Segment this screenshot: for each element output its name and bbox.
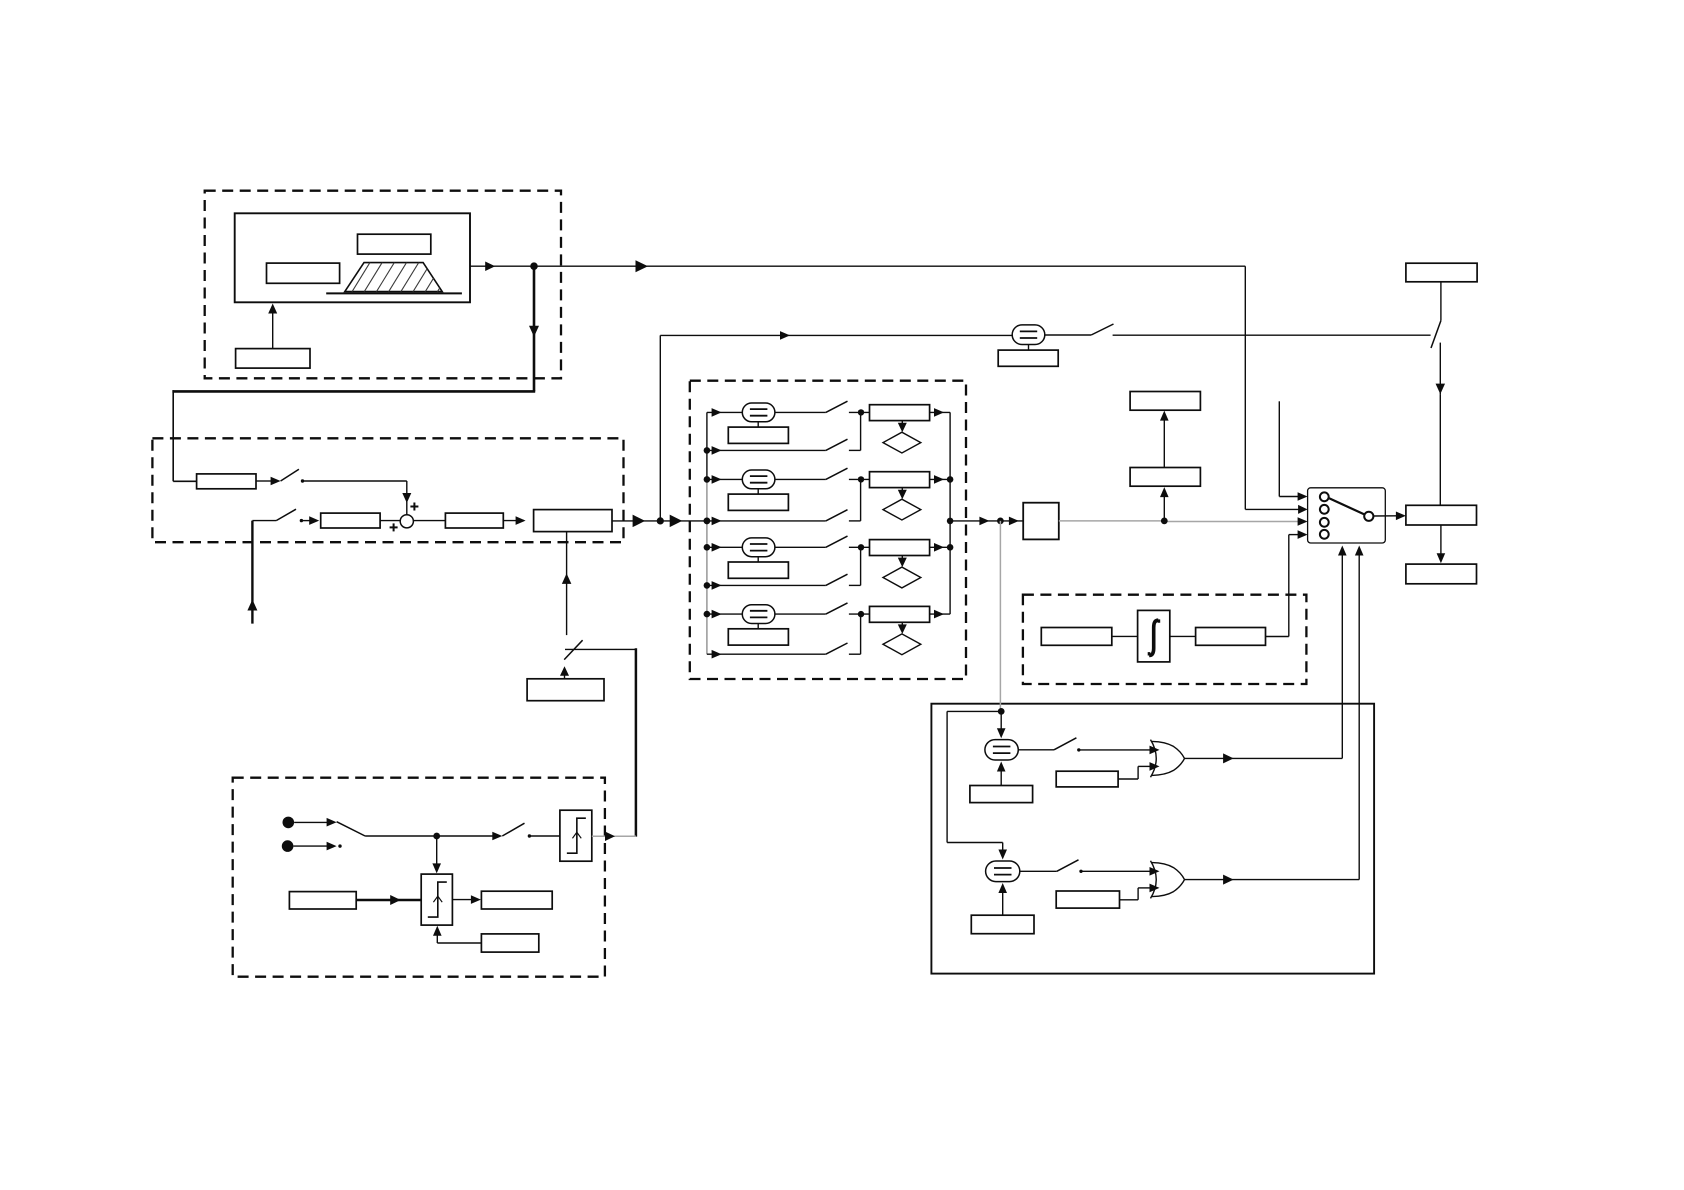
row 3: lower switch stub and riser to latch input <box>849 584 861 586</box>
manual switch SW2 blade <box>276 509 296 520</box>
constant block feeding SW4 <box>527 679 604 701</box>
dashed subsystem boundary: command conditioning group <box>152 438 623 542</box>
wire: SW2 to transfer block TB1 <box>301 520 312 522</box>
wire: MPS1 output to plant block <box>1373 515 1397 517</box>
row 2: constant block under CMP2 <box>728 494 788 510</box>
wire: branch up from main line to bypass path <box>659 335 661 521</box>
switch SW6 blade <box>502 823 524 836</box>
wire: G1 output to manual switch SW1 <box>256 480 272 482</box>
OR gate 2 <box>1152 863 1185 897</box>
manual switch SW3 blade <box>1091 324 1113 335</box>
integrator block INT1 <box>1138 610 1170 662</box>
row 4: stem to constant <box>757 624 759 629</box>
row 1: arrow down to diamond <box>901 421 903 428</box>
row 2: lower wire from bus <box>707 520 734 522</box>
wire: lower selector output up into RL1 <box>566 532 568 636</box>
row 3: lower wire from bus <box>707 584 734 586</box>
wire: constant up into signal builder <box>272 308 274 349</box>
row 4: wire latch to right bus <box>930 613 951 615</box>
row 1: latch block <box>870 405 930 421</box>
wire: junction down into relay block <box>436 836 438 869</box>
hatched trapezoid waveform <box>345 260 469 295</box>
dashed subsystem boundary: comparator bank group <box>690 381 966 679</box>
wire: threshold into RLY1 bottom <box>437 942 481 944</box>
wire: constant to OR1 input b <box>1118 778 1138 780</box>
row 4: diamond indicator <box>883 634 921 655</box>
row 4: upper switch blade <box>826 603 848 614</box>
rate limiter block RL1 <box>534 510 612 532</box>
row 4: arrow down to diamond <box>901 622 903 629</box>
wire: SC2 up into SC1 <box>1163 415 1165 468</box>
node: left bus junction dots <box>704 447 711 454</box>
wire: SW3 to right toward selector switch <box>1113 334 1431 336</box>
MPS1 selector blade <box>1329 498 1365 514</box>
wire: gray drop from main line into logic box <box>999 521 1001 712</box>
row 1: comparator CMP1 (stadium) <box>742 403 775 422</box>
gain block IG1 <box>1041 628 1112 646</box>
row 3: stem to constant <box>757 557 759 562</box>
constant block for OR2 input b <box>1056 891 1119 908</box>
node: junction to relay branch <box>433 833 440 840</box>
row 2: comparator CMP2 (stadium) <box>742 470 775 489</box>
wire: thick feedback from junction down and left <box>533 266 536 391</box>
wire: CMP0 to manual switch SW3 <box>1045 334 1091 336</box>
manual switch SW1 blade <box>281 469 299 481</box>
row 1: wire latch to right bus <box>930 411 951 413</box>
multiport switch MPS1 body <box>1308 488 1386 543</box>
comparator CMPA (stadium) <box>985 740 1018 760</box>
node: junction at top of logic box <box>998 708 1005 715</box>
scope block SC2 (lower) <box>1130 468 1200 487</box>
row 2: upper switch blade <box>826 468 848 479</box>
row 2: diamond indicator <box>883 499 921 520</box>
constant block feeding RLY1 (left) <box>289 892 356 909</box>
wire: SAT1 output to feedback riser (gray) <box>592 835 636 837</box>
wire: RLY1 output to result box <box>452 899 473 901</box>
wire: junction down into comparator CMPA <box>1000 711 1002 733</box>
row 4: lower switch blade <box>826 643 848 654</box>
constant block for OR1 input b <box>1056 771 1118 787</box>
wire: left branch to second comparator <box>947 710 1001 712</box>
wire: thick feedback riser from relay output <box>635 648 638 836</box>
constant block under CMPB <box>971 915 1034 934</box>
unit delay block Z1 (square) <box>1023 503 1059 540</box>
constant block TR1 (top right) <box>1406 263 1477 282</box>
node: junction under scope column <box>1161 518 1168 525</box>
wire: SW8 to OR gate 1 input a <box>1079 749 1151 751</box>
summing junction S1 <box>400 515 413 528</box>
wire: CMPB to switch SW9 <box>1020 870 1057 872</box>
constant block under CMP0 <box>998 350 1058 366</box>
wire: IG2 up to selector input 4 <box>1266 636 1289 638</box>
row 3: wire latch to right bus <box>930 546 951 548</box>
wire: OR2 output to riser and up to MPS1 pin c <box>1185 879 1360 881</box>
row 1: stem to constant <box>757 422 759 427</box>
row 4: wire switch to latch block <box>849 613 870 615</box>
switch SW8 blade <box>1054 738 1076 750</box>
row 3: lower switch blade <box>826 574 848 585</box>
row 2: wire CMP2 to switch <box>775 478 826 480</box>
MPS1 input port circles <box>1320 492 1329 501</box>
signal builder inner label box (top) <box>358 234 431 254</box>
wire: OR1 output to riser and up to MPS1 pin b <box>1185 757 1343 759</box>
wire: bank output to unit-delay square <box>950 520 1023 522</box>
row 2: arrow down to diamond <box>901 488 903 495</box>
right bus vertical <box>949 412 951 614</box>
wire: SW1 to summing junction (over and down) <box>303 480 407 482</box>
wire: constant to OR2 input b <box>1120 899 1139 901</box>
row 1: wire CMP1 to switch <box>775 411 826 413</box>
wire: constant up into SW4 <box>564 671 566 679</box>
row 4: lower wire from bus <box>707 653 734 655</box>
row 1: lower wire from bus <box>707 449 734 451</box>
row 2: lower switch stub and riser to latch input <box>849 520 861 522</box>
plus sign (upper input of sum) <box>410 506 418 508</box>
wire: CMP0 stem to constant <box>1028 345 1030 351</box>
source constant block feeding signal builder <box>236 349 310 369</box>
row 3: comparator CMP3 (stadium) <box>742 538 775 557</box>
signal builder block U1 (outer frame) <box>235 213 470 302</box>
row 3: constant block under CMP3 <box>728 562 788 578</box>
wire: constant up into CMPA <box>1000 766 1002 786</box>
row 3: diamond indicator <box>883 567 921 588</box>
wire: IN2 open contact <box>293 845 328 847</box>
plant block PL1 <box>1406 505 1477 525</box>
wire: sum to transfer block TB2 <box>413 520 445 522</box>
transfer block TB1 <box>321 513 380 528</box>
row 3: latch block <box>870 540 930 556</box>
node: output junction dot <box>530 262 538 270</box>
wire: SW5 to SW6 <box>365 835 437 837</box>
row 2: lower switch blade <box>826 510 848 521</box>
signal builder inner label box (left) <box>267 263 340 283</box>
saturation block SAT1 <box>560 810 592 861</box>
wire: PL1 down to output block <box>1440 525 1442 559</box>
node: junction feeding logic box below (gray drop) <box>997 518 1004 525</box>
row 1: lower switch blade <box>826 439 848 450</box>
input stub arrow from below into SW2 <box>251 521 253 624</box>
wire: integrator to gain IG2 <box>1170 635 1196 637</box>
dashed subsystem boundary: manual command group <box>233 778 605 977</box>
row 1: lower switch stub and riser to latch input <box>849 449 861 451</box>
result box right of RLY1 <box>481 891 552 909</box>
OR gate 1 <box>1152 741 1185 775</box>
signal builder axis baseline <box>326 292 462 294</box>
gain block IG2 <box>1196 628 1266 646</box>
row 2: wire switch to latch block <box>849 478 870 480</box>
row 1: constant block under CMP1 <box>728 427 788 443</box>
solid subsystem boundary: alarm logic box <box>931 704 1374 974</box>
row 4: lower switch stub and riser to latch input <box>849 653 861 655</box>
wire: junction up into scope block SC2 <box>1163 492 1165 521</box>
node: right bus junction dots <box>947 476 954 483</box>
wire: TB1 to summing junction <box>380 520 401 522</box>
node: junction on main line <box>657 517 664 524</box>
dashed subsystem boundary: reference signal generator group <box>205 191 561 379</box>
manual switch SW7 blade <box>1431 321 1441 348</box>
output block OUT1 <box>1406 564 1477 584</box>
row 4: wire bus to comparator <box>707 613 743 615</box>
bypass comparator CMP0 (stadium with equal bars) <box>1012 325 1045 345</box>
wire: signal builder output to junction <box>470 265 534 267</box>
row 2: wire bus to comparator <box>707 478 743 480</box>
row 2: stem to constant <box>757 489 759 494</box>
switch SW5 blade <box>337 822 366 836</box>
row 2: latch block <box>870 472 930 488</box>
row 4: latch block <box>870 606 930 622</box>
plus sign (left input of sum) <box>390 526 398 528</box>
wire: hanging stub into selector input 1 <box>1278 401 1280 496</box>
wire: Z1 output east (gray) to selector input 3 <box>1059 520 1165 522</box>
wire: RL1 output main line with double arrowheads <box>612 520 660 522</box>
wire: TR1 down to manual switch SW7 <box>1440 282 1442 321</box>
row 3: wire CMP3 to switch <box>775 546 826 548</box>
row 4: comparator CMP4 (stadium) <box>742 605 775 624</box>
dashed subsystem boundary: integrator chain group <box>1023 595 1307 684</box>
row 3: arrow down to diamond <box>901 556 903 563</box>
wire: TB2 to rate limiter RL1 <box>503 520 524 522</box>
left bus vertical (gray lower segment) <box>706 478 708 654</box>
row 3: upper switch blade <box>826 536 848 547</box>
row 4: wire CMP4 to switch <box>775 613 826 615</box>
wire: SW7 output down into PL1 (with mid arrowhead) <box>1439 343 1441 395</box>
wire: top horizontal run to selector input 2 <box>534 265 1245 267</box>
row 3: wire switch to latch block <box>849 546 870 548</box>
row 1: wire switch to latch block <box>849 411 870 413</box>
wire: into manual switch SW2 <box>252 520 276 522</box>
wire: IG1 to integrator <box>1112 635 1138 637</box>
constant block under CMPA <box>970 786 1033 803</box>
wire: down into control dashed box <box>172 390 174 481</box>
relay block RLY1 <box>421 874 452 925</box>
wire: constant up into CMPB <box>1002 887 1004 915</box>
MPS1 output port circle <box>1364 512 1373 521</box>
transfer block TB2 <box>445 513 503 528</box>
wire: SW4 right contact to feedback riser <box>565 648 636 650</box>
input port IN1 (filled circle) <box>283 817 295 829</box>
constant block below (threshold) <box>481 934 538 952</box>
gain block G1 <box>197 474 256 489</box>
input port IN2 (filled circle) <box>282 840 294 852</box>
node: main input junction into bank <box>704 518 711 525</box>
wire: SW6 to saturation block <box>529 835 560 837</box>
wire: thick constant to RLY1 <box>356 899 421 901</box>
comparator CMPB (stadium) <box>986 861 1020 882</box>
wire: CMPA to switch SW8 <box>1018 749 1054 751</box>
row 2: wire latch to right bus <box>930 478 951 480</box>
row 4: constant block under CMP4 <box>728 629 788 645</box>
row 1: wire bus to comparator <box>707 411 743 413</box>
row 1: upper switch blade <box>826 401 848 412</box>
manual switch SW4 blade (below RL1) <box>564 640 582 659</box>
left bus vertical (black upper segment) <box>706 412 708 478</box>
row 3: wire bus to comparator <box>707 546 743 548</box>
row 1: diamond indicator <box>883 432 921 453</box>
wire: IN1 to switch SW5 <box>294 821 328 823</box>
scope block SC1 (upper) <box>1130 392 1200 411</box>
switch SW9 blade <box>1057 860 1079 872</box>
wire: SW9 to OR gate 2 input a <box>1081 870 1151 872</box>
